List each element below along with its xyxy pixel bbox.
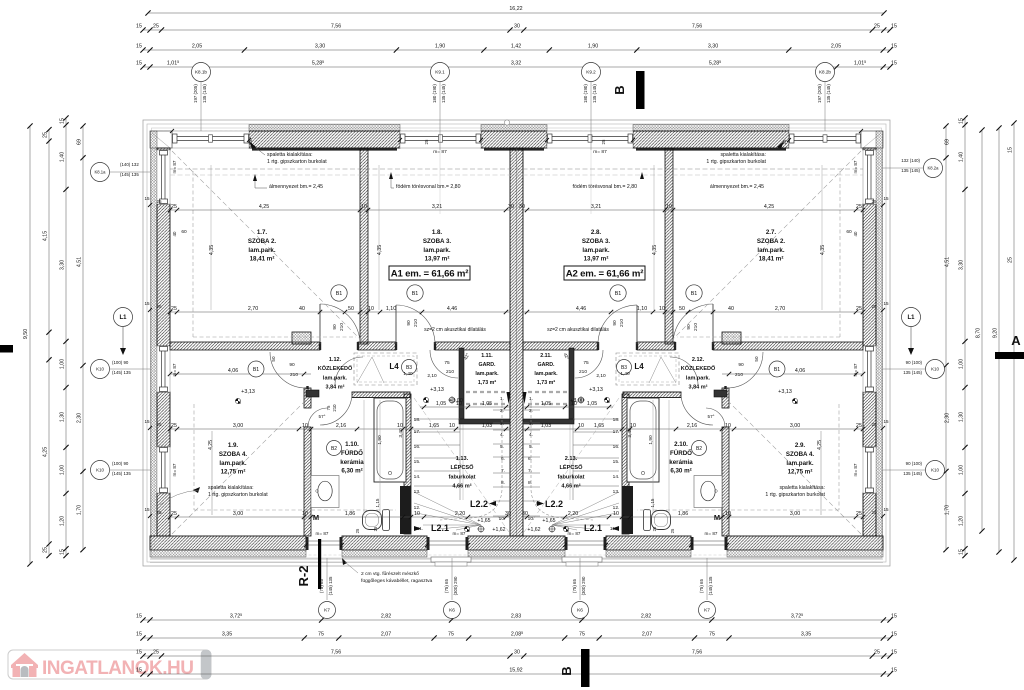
svg-text:K10: K10 xyxy=(931,468,939,473)
interior dim row bath right xyxy=(523,428,863,430)
interior dim row gard right xyxy=(523,406,613,408)
window axis circle K10 right lower xyxy=(926,461,945,480)
svg-text:16.: 16. xyxy=(613,444,620,450)
wall edge tick pairs xyxy=(148,203,152,207)
svg-text:25: 25 xyxy=(782,139,787,144)
svg-text:GARD.: GARD. xyxy=(478,362,496,368)
section mark A left xyxy=(0,345,13,353)
left unit chimney block xyxy=(292,332,311,344)
svg-text:135 (145): 135 (145) xyxy=(202,84,207,103)
svg-text:1,86: 1,86 xyxy=(345,511,355,517)
svg-text:15: 15 xyxy=(136,61,142,67)
svg-text:25: 25 xyxy=(1008,257,1014,263)
svg-text:25: 25 xyxy=(355,528,360,533)
svg-text:3,21: 3,21 xyxy=(432,204,442,210)
svg-text:25: 25 xyxy=(156,422,162,427)
svg-text:1,10: 1,10 xyxy=(386,306,396,312)
svg-text:3,35: 3,35 xyxy=(222,632,232,638)
left unit bath north wall xyxy=(306,390,319,397)
svg-text:K8.2a: K8.2a xyxy=(928,166,940,171)
window axis circle K8.1b xyxy=(192,63,211,82)
svg-text:B: B xyxy=(559,666,574,675)
svg-text:1 rtg. gipszkarton burkolat: 1 rtg. gipszkarton burkolat xyxy=(267,159,327,165)
interior dim row north rooms left xyxy=(170,209,510,211)
svg-text:15: 15 xyxy=(136,668,142,674)
svg-text:10.: 10. xyxy=(499,516,506,522)
svg-text:(100) 90: (100) 90 xyxy=(112,360,129,365)
left unit door szoba4 arc xyxy=(270,352,306,388)
left unit bathtub xyxy=(374,398,406,482)
svg-text:K8.1a: K8.1a xyxy=(95,170,107,175)
svg-text:60: 60 xyxy=(181,229,187,235)
svg-text:2.10.: 2.10. xyxy=(674,441,688,448)
svg-text:(145) 135: (145) 135 xyxy=(120,172,139,177)
svg-text:25: 25 xyxy=(856,511,862,517)
svg-text:1.7.: 1.7. xyxy=(257,229,268,236)
svg-text:210: 210 xyxy=(619,319,625,327)
svg-text:1,00: 1,00 xyxy=(60,359,66,369)
svg-text:13.: 13. xyxy=(414,489,421,495)
right wall insulation strip xyxy=(876,131,883,536)
svg-text:INGATLANOK.HU: INGATLANOK.HU xyxy=(42,658,193,679)
svg-text:m= 87: m= 87 xyxy=(172,463,177,476)
svg-text:2,30: 2,30 xyxy=(944,413,950,423)
interior dim row corridor right xyxy=(722,373,863,375)
svg-text:1.12.: 1.12. xyxy=(329,357,342,363)
svg-text:16.: 16. xyxy=(414,444,421,450)
right unit door B1 szoba2 arc xyxy=(673,304,713,344)
svg-text:lam.park.: lam.park. xyxy=(786,460,813,467)
svg-text:7.: 7. xyxy=(501,468,505,474)
svg-text:180 (190): 180 (190) xyxy=(583,84,588,103)
svg-text:SZOBA 2.: SZOBA 2. xyxy=(248,238,277,245)
svg-text:15: 15 xyxy=(136,650,142,656)
right unit stair mid lines xyxy=(572,424,574,500)
left unit gard wall xyxy=(459,348,464,420)
svg-text:90 (100): 90 (100) xyxy=(906,461,923,466)
svg-text:1,03: 1,03 xyxy=(541,423,551,429)
svg-text:6,30 m²: 6,30 m² xyxy=(341,468,362,475)
svg-text:75: 75 xyxy=(583,360,589,366)
svg-text:7,56: 7,56 xyxy=(331,24,341,30)
svg-text:3,35: 3,35 xyxy=(801,632,811,638)
svg-text:57°: 57° xyxy=(319,414,326,419)
svg-text:L1: L1 xyxy=(119,315,127,321)
left unit closet arc B3 xyxy=(335,357,363,385)
svg-text:1,20: 1,20 xyxy=(959,516,965,526)
left unit partition wall szoba2|szoba3 xyxy=(360,148,368,344)
svg-text:90: 90 xyxy=(612,320,618,326)
svg-text:25: 25 xyxy=(670,528,675,533)
svg-text:L1: L1 xyxy=(907,315,915,321)
door circle B1 szoba4 right xyxy=(769,361,785,377)
left wall windows xyxy=(157,150,170,204)
bath vertical dim lines right xyxy=(668,400,670,515)
svg-text:2,20: 2,20 xyxy=(568,511,578,517)
right unit bath east wall xyxy=(622,394,629,534)
svg-text:2,16: 2,16 xyxy=(336,423,346,429)
svg-text:B1: B1 xyxy=(774,367,780,373)
svg-text:2.: 2. xyxy=(500,408,504,414)
left wall insulation strip xyxy=(151,131,158,536)
bottom dim row 7,56 xyxy=(143,655,890,657)
svg-text:15: 15 xyxy=(144,419,150,424)
svg-text:LÉPCSŐ: LÉPCSŐ xyxy=(450,463,474,471)
svg-text:1.10.: 1.10. xyxy=(345,441,359,448)
right unit closet arc B3 xyxy=(670,357,698,385)
exterior steps left terrace door xyxy=(431,557,471,562)
svg-text:1.11.: 1.11. xyxy=(481,353,493,359)
svg-text:1 rtg. gipszkarton burkolat: 1 rtg. gipszkarton burkolat xyxy=(706,159,766,165)
right unit level circle marks xyxy=(578,397,584,403)
svg-text:K10: K10 xyxy=(96,468,104,473)
svg-text:KÖZLEKEDŐ: KÖZLEKEDŐ xyxy=(318,365,353,372)
svg-text:25: 25 xyxy=(871,199,877,204)
svg-text:2.12.: 2.12. xyxy=(692,357,705,363)
svg-text:4.: 4. xyxy=(500,432,504,438)
svg-text:A1 em. = 61,66 m²: A1 em. = 61,66 m² xyxy=(391,269,468,280)
svg-text:60: 60 xyxy=(846,229,852,235)
svg-text:1,40: 1,40 xyxy=(959,152,965,162)
svg-text:2.7.: 2.7. xyxy=(766,229,777,236)
svg-text:25: 25 xyxy=(248,139,253,144)
svg-text:4,25: 4,25 xyxy=(817,440,823,450)
eave outline inner xyxy=(147,124,886,562)
svg-text:K7: K7 xyxy=(704,608,710,614)
svg-text:7.: 7. xyxy=(528,468,532,474)
door circle B1 room1.8 xyxy=(407,285,423,301)
svg-text:4,06: 4,06 xyxy=(228,368,238,374)
svg-text:+1,65: +1,65 xyxy=(542,518,555,524)
svg-text:kerámia: kerámia xyxy=(340,459,364,466)
svg-text:25: 25 xyxy=(652,526,657,531)
left unit stair treads left flight xyxy=(414,418,460,420)
svg-text:L2.1: L2.1 xyxy=(584,523,602,533)
svg-text:15: 15 xyxy=(891,614,897,620)
svg-text:2,82: 2,82 xyxy=(641,614,651,620)
svg-text:L2.2: L2.2 xyxy=(470,499,488,509)
svg-text:L2.2: L2.2 xyxy=(545,499,563,509)
svg-text:B2: B2 xyxy=(696,446,702,452)
left unit stair mid lines xyxy=(459,424,461,500)
svg-text:15: 15 xyxy=(891,650,897,656)
svg-text:B2: B2 xyxy=(331,446,337,452)
svg-text:lam.park.: lam.park. xyxy=(323,375,348,381)
svg-text:15: 15 xyxy=(891,61,897,67)
svg-text:10: 10 xyxy=(449,423,455,429)
svg-text:25: 25 xyxy=(871,510,877,515)
svg-text:1,40: 1,40 xyxy=(620,371,630,377)
svg-text:15,92: 15,92 xyxy=(509,668,522,674)
right unit toilet xyxy=(652,511,671,530)
svg-text:spaletta kialakítása:: spaletta kialakítása: xyxy=(208,485,254,491)
svg-text:17.: 17. xyxy=(613,429,620,435)
svg-text:25: 25 xyxy=(171,511,177,517)
window axis circle K8.2a xyxy=(924,159,943,178)
svg-text:(300) 290: (300) 290 xyxy=(581,576,586,595)
svg-text:3,00: 3,00 xyxy=(790,423,800,429)
svg-text:GARD.: GARD. xyxy=(537,362,555,368)
svg-text:25: 25 xyxy=(373,526,378,531)
left unit door bath arc xyxy=(308,408,327,427)
svg-text:+3,13: +3,13 xyxy=(241,389,255,395)
bottom wall outer lines xyxy=(150,558,883,560)
svg-text:75: 75 xyxy=(444,360,450,366)
svg-text:(145) 135: (145) 135 xyxy=(112,471,131,476)
top dim row 1,01 5,28 xyxy=(143,66,890,68)
svg-text:1,03: 1,03 xyxy=(482,423,492,429)
svg-text:90: 90 xyxy=(686,324,692,330)
svg-text:+1,65: +1,65 xyxy=(477,518,490,524)
svg-text:1,30: 1,30 xyxy=(959,412,965,422)
svg-text:69: 69 xyxy=(77,139,83,145)
right unit roof diagonal stairs xyxy=(524,398,619,532)
svg-text:12,75 m²: 12,75 m² xyxy=(221,469,246,476)
svg-text:18.: 18. xyxy=(613,417,620,423)
svg-text:75: 75 xyxy=(326,405,331,410)
svg-text:8.: 8. xyxy=(528,480,532,486)
left dim column 9,50 xyxy=(29,126,31,564)
left dim column 25 4,15 xyxy=(48,130,50,556)
svg-text:75: 75 xyxy=(318,632,324,638)
svg-text:25: 25 xyxy=(43,547,49,553)
top dim row 16,22 xyxy=(148,12,884,14)
svg-text:1,42: 1,42 xyxy=(511,44,521,50)
svg-text:1,65: 1,65 xyxy=(594,423,604,429)
svg-text:210: 210 xyxy=(339,323,345,331)
svg-text:R-2: R-2 xyxy=(296,566,311,587)
svg-text:30: 30 xyxy=(514,650,520,656)
svg-text:50: 50 xyxy=(754,356,759,362)
svg-text:69: 69 xyxy=(944,139,950,145)
svg-text:30: 30 xyxy=(522,511,528,517)
svg-text:M: M xyxy=(714,513,720,522)
ceiling dashed line xyxy=(170,168,863,170)
svg-text:spaletta kialakítása:: spaletta kialakítása: xyxy=(267,152,313,158)
svg-text:12.: 12. xyxy=(414,505,421,511)
svg-text:lam.park.: lam.park. xyxy=(248,247,275,254)
svg-text:4,66 m²: 4,66 m² xyxy=(561,483,580,490)
svg-text:L4: L4 xyxy=(389,362,399,371)
left unit level mark flags xyxy=(423,397,426,400)
svg-text:4,35: 4,35 xyxy=(652,245,658,255)
svg-text:14.: 14. xyxy=(414,474,421,480)
svg-text:3.: 3. xyxy=(500,421,504,427)
bottom dim row 3,35 xyxy=(143,637,890,639)
left wall hatched segments xyxy=(157,148,170,150)
svg-text:8.: 8. xyxy=(501,480,505,486)
svg-text:15: 15 xyxy=(883,301,889,306)
svg-text:10: 10 xyxy=(659,306,665,312)
area box A2 xyxy=(564,266,645,280)
svg-text:7,56: 7,56 xyxy=(692,650,702,656)
right unit direction arrows xyxy=(612,526,619,531)
svg-text:födém törésvonal bm.= 2,80: födém törésvonal bm.= 2,80 xyxy=(396,184,461,190)
svg-text:2,07: 2,07 xyxy=(381,632,391,638)
eave dashed line xyxy=(152,128,882,558)
svg-text:L2.1: L2.1 xyxy=(431,523,449,533)
svg-text:25: 25 xyxy=(856,423,862,429)
svg-text:6,30 m²: 6,30 m² xyxy=(670,468,691,475)
svg-text:(75) 65: (75) 65 xyxy=(444,578,449,592)
svg-text:15: 15 xyxy=(144,301,150,306)
svg-text:135 (145): 135 (145) xyxy=(901,168,920,173)
left unit level circle marks xyxy=(449,397,455,403)
svg-text:15: 15 xyxy=(891,632,897,638)
svg-text:3,30: 3,30 xyxy=(60,260,66,270)
svg-text:90: 90 xyxy=(406,320,412,326)
svg-text:2,70: 2,70 xyxy=(775,306,785,312)
svg-text:18.: 18. xyxy=(414,417,421,423)
left unit szoba4 east wall xyxy=(304,388,311,408)
svg-text:K8.2b: K8.2b xyxy=(819,70,831,75)
svg-text:57°: 57° xyxy=(708,414,715,419)
svg-text:3,00: 3,00 xyxy=(233,511,243,517)
svg-text:4,25: 4,25 xyxy=(259,204,269,210)
svg-text:1,40: 1,40 xyxy=(60,152,66,162)
right unit gard shelves dashed xyxy=(527,391,567,393)
svg-text:(145) 135: (145) 135 xyxy=(328,576,333,595)
svg-text:9.: 9. xyxy=(493,501,497,507)
right unit stair treads left flight xyxy=(573,418,619,420)
svg-text:1,40: 1,40 xyxy=(403,371,413,377)
svg-text:4,35: 4,35 xyxy=(209,245,215,255)
svg-text:10: 10 xyxy=(578,423,584,429)
svg-text:1,65: 1,65 xyxy=(429,423,439,429)
svg-text:2,05: 2,05 xyxy=(192,44,202,50)
svg-text:(75) 65: (75) 65 xyxy=(572,578,577,592)
svg-text:9,20: 9,20 xyxy=(993,328,999,338)
svg-text:1,90: 1,90 xyxy=(435,44,445,50)
svg-text:1,00: 1,00 xyxy=(959,359,965,369)
window axis circle K9.2 xyxy=(582,63,601,82)
left unit stair treads right flight xyxy=(493,409,510,411)
svg-text:25: 25 xyxy=(874,650,880,656)
svg-text:m= 87: m= 87 xyxy=(853,160,858,173)
svg-text:9,50: 9,50 xyxy=(23,329,29,339)
svg-text:m= 87: m= 87 xyxy=(172,363,177,376)
svg-text:(145) 135: (145) 135 xyxy=(708,576,713,595)
svg-text:15: 15 xyxy=(883,419,889,424)
left unit closet folding door lines xyxy=(357,357,372,383)
svg-text:25: 25 xyxy=(156,199,162,204)
door circle B3 left xyxy=(402,360,417,375)
svg-text:4,46: 4,46 xyxy=(447,306,457,312)
svg-text:18,41 m²: 18,41 m² xyxy=(250,256,275,263)
svg-text:B1: B1 xyxy=(691,291,698,297)
svg-text:m= 87: m= 87 xyxy=(316,531,329,536)
svg-text:2,07: 2,07 xyxy=(642,632,652,638)
left unit room south wall segments xyxy=(170,342,320,350)
svg-text:(75) 65: (75) 65 xyxy=(699,578,704,592)
top wall hatched blocks xyxy=(249,131,400,148)
svg-text:(100) 90: (100) 90 xyxy=(112,461,129,466)
svg-text:25: 25 xyxy=(156,304,162,309)
svg-text:210: 210 xyxy=(332,404,337,412)
left unit ceiling inset dashed xyxy=(192,171,194,337)
svg-text:15: 15 xyxy=(891,44,897,50)
svg-text:15: 15 xyxy=(883,507,889,512)
svg-text:25: 25 xyxy=(601,139,606,144)
right unit bath north wall xyxy=(714,390,727,397)
svg-text:10: 10 xyxy=(397,423,403,429)
right unit door corridor-bath arc xyxy=(681,393,713,425)
svg-text:K10: K10 xyxy=(931,367,939,372)
svg-text:faburkolat: faburkolat xyxy=(557,474,584,480)
left unit washbasin vanity xyxy=(311,476,339,508)
svg-text:lam.park.: lam.park. xyxy=(475,371,499,377)
svg-text:40: 40 xyxy=(172,231,177,236)
svg-text:3,00: 3,00 xyxy=(233,423,243,429)
left unit stair walking line xyxy=(440,400,502,520)
svg-text:1,86: 1,86 xyxy=(678,511,688,517)
svg-text:15: 15 xyxy=(883,196,889,201)
eave vent circle top xyxy=(504,120,509,125)
section mark B bottom xyxy=(581,649,590,687)
svg-text:K10: K10 xyxy=(96,367,104,372)
right unit stair winder fan xyxy=(552,492,619,525)
wall axis circle K7 left xyxy=(319,602,336,619)
svg-text:M: M xyxy=(313,513,319,522)
top wall insulation strip xyxy=(249,125,400,132)
svg-text:15: 15 xyxy=(891,668,897,674)
area box A1 xyxy=(389,266,470,280)
svg-text:LÉPCSŐ: LÉPCSŐ xyxy=(559,463,583,471)
svg-text:10: 10 xyxy=(302,423,308,429)
svg-text:+3,13: +3,13 xyxy=(778,389,792,395)
svg-text:3,30: 3,30 xyxy=(708,44,718,50)
svg-text:50: 50 xyxy=(348,306,354,312)
right unit level mark flags xyxy=(604,397,607,400)
svg-text:135 (145): 135 (145) xyxy=(592,84,597,103)
right unit chimney block xyxy=(722,332,741,344)
left unit gard shelves dashed xyxy=(466,391,506,393)
right unit roof diagonal szoba2 xyxy=(669,151,861,343)
svg-text:13,97 m²: 13,97 m² xyxy=(425,256,450,263)
interior dim row doors right xyxy=(523,311,863,313)
svg-text:13.: 13. xyxy=(613,489,620,495)
svg-text:25: 25 xyxy=(171,204,177,210)
svg-text:17.: 17. xyxy=(414,429,421,435)
svg-text:13,97 m²: 13,97 m² xyxy=(584,256,609,263)
svg-text:lam.park.: lam.park. xyxy=(686,375,711,381)
window axis circle K10 right upper xyxy=(926,360,945,379)
svg-text:2,10: 2,10 xyxy=(427,373,437,379)
bottom dim row 3,72 xyxy=(143,619,890,621)
left unit door gard arc xyxy=(430,350,458,378)
svg-text:3,30: 3,30 xyxy=(959,260,965,270)
bath vertical dim lines left xyxy=(363,400,365,515)
svg-text:FÜRDŐ: FÜRDŐ xyxy=(341,450,363,457)
svg-text:18,41 m²: 18,41 m² xyxy=(759,256,784,263)
svg-text:+1,62: +1,62 xyxy=(492,527,505,533)
svg-text:12.: 12. xyxy=(613,505,620,511)
svg-text:lam.park.: lam.park. xyxy=(219,460,246,467)
svg-text:210: 210 xyxy=(579,369,587,375)
svg-text:15: 15 xyxy=(959,549,965,555)
right dim column 25 xyxy=(1013,123,1015,560)
svg-text:3,84 m²: 3,84 m² xyxy=(689,384,708,391)
svg-text:135 (145): 135 (145) xyxy=(903,370,922,375)
right unit stair walking line xyxy=(531,400,593,520)
svg-text:1,30: 1,30 xyxy=(60,412,66,422)
svg-text:210: 210 xyxy=(735,372,743,378)
svg-text:135 (145): 135 (145) xyxy=(441,84,446,103)
svg-text:1.: 1. xyxy=(500,396,504,402)
svg-text:25: 25 xyxy=(171,306,177,312)
right unit gard wall xyxy=(569,348,574,420)
svg-text:10: 10 xyxy=(613,511,619,517)
